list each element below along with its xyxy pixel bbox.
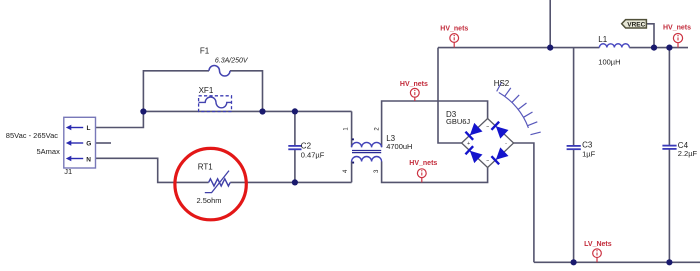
connector J1	[64, 117, 96, 168]
svg-text:LV_Nets: LV_Nets	[584, 241, 612, 248]
svg-text:HS2: HS2	[494, 79, 510, 88]
diode D3 top-left arm	[465, 123, 482, 140]
junction C3 bottom	[571, 259, 577, 265]
capacitor C3	[567, 146, 581, 149]
wire bridge plus output to top HV rail	[438, 48, 462, 143]
svg-text:85Vac - 265Vac: 85Vac - 265Vac	[6, 131, 59, 140]
bridge rectifier D3	[462, 119, 514, 168]
svg-text:1µF: 1µF	[582, 150, 595, 159]
svg-text:N: N	[86, 156, 91, 163]
wire J1 pin L to fuse-left junction	[96, 112, 144, 128]
capacitor C2	[288, 146, 301, 149]
svg-text:HV_nets: HV_nets	[440, 26, 468, 33]
wire L3 pin 3 to bridge AC bottom	[382, 162, 488, 183]
wire F1 top loop (left riser, top run, right riser)	[143, 71, 262, 112]
wire L3 pin 2 to bridge AC top	[382, 101, 488, 147]
wire top HV rail	[438, 47, 688, 49]
wire C3 branch	[573, 48, 575, 263]
svg-text:1: 1	[344, 127, 350, 131]
svg-text:~: ~	[486, 124, 489, 130]
svg-text:HV_nets: HV_nets	[663, 25, 691, 32]
svg-text:5Amax: 5Amax	[37, 147, 61, 156]
svg-text:2: 2	[375, 127, 381, 131]
svg-text:2.2µF: 2.2µF	[678, 149, 698, 158]
svg-text:~: ~	[486, 159, 489, 165]
svg-text:4: 4	[343, 169, 349, 173]
wire RT1 to L3 pin 4	[230, 162, 351, 183]
heatsink HS2	[497, 82, 541, 135]
wire riser to top edge	[549, 0, 551, 48]
svg-text:2.5ohm: 2.5ohm	[197, 196, 222, 205]
svg-text:C2: C2	[301, 142, 312, 151]
net HV_nets top-left	[440, 26, 468, 48]
svg-text:4700uH: 4700uH	[386, 142, 412, 151]
wire C2 bottom stub	[294, 150, 296, 183]
wire J1 pin G stub	[96, 142, 112, 144]
svg-text:VREC: VREC	[627, 21, 645, 28]
diode D3 top-right arm	[491, 121, 508, 138]
diode D3 bottom-left arm	[465, 146, 482, 163]
junction at fuse left	[140, 108, 146, 114]
junction top riser	[547, 45, 553, 51]
junction C2 bottom	[292, 179, 298, 185]
svg-text:G: G	[86, 141, 91, 148]
wire C4 branch	[668, 48, 670, 263]
junction C4 top	[666, 45, 672, 51]
wire J1 pin N to RT1	[96, 158, 209, 182]
svg-text:RT1: RT1	[198, 163, 214, 172]
net HV_nets mid (L3 pin2 rail)	[400, 81, 428, 101]
net flag VREC	[622, 20, 647, 29]
wire bridge minus output to bottom rail	[513, 143, 534, 262]
svg-text:C3: C3	[582, 141, 593, 150]
svg-text:-: -	[505, 141, 507, 147]
fuseholder XF1	[199, 96, 232, 112]
svg-text:GBU6J: GBU6J	[446, 117, 470, 126]
wire top AC rail to L3 pin 1	[143, 111, 351, 147]
svg-text:L1: L1	[598, 35, 607, 44]
junction VREC tap	[651, 45, 657, 51]
capacitor C4	[662, 146, 676, 149]
junction C4 bottom	[666, 259, 672, 265]
svg-text:3: 3	[374, 169, 380, 173]
common-mode choke L3	[352, 138, 382, 163]
thermistor RT1	[205, 171, 230, 193]
svg-text:L: L	[87, 125, 91, 132]
svg-text:HV_nets: HV_nets	[409, 160, 437, 167]
junction C2 top	[292, 108, 298, 114]
junction at fuse right	[259, 108, 265, 114]
svg-text:J1: J1	[64, 167, 72, 176]
wire VREC tap	[646, 24, 654, 48]
svg-text:XF1: XF1	[199, 86, 214, 95]
fuse F1	[209, 66, 230, 77]
net LV_Nets bottom	[584, 241, 612, 262]
wire C2 top stub	[294, 111, 296, 145]
svg-text:100µH: 100µH	[598, 57, 620, 66]
svg-text:0.47µF: 0.47µF	[301, 150, 325, 159]
svg-text:HV_nets: HV_nets	[400, 81, 428, 88]
inductor L1	[599, 44, 629, 48]
svg-text:+: +	[467, 141, 470, 147]
svg-text:F1: F1	[200, 47, 210, 56]
net HV_nets top-right	[663, 25, 691, 48]
diode D3 bottom-right arm	[491, 147, 508, 164]
wire bottom LV rail	[534, 261, 700, 263]
net HV_nets lower (L3 pin3 rail)	[409, 160, 437, 182]
RT1 highlight circle	[175, 148, 246, 219]
svg-text:6.3A/250V: 6.3A/250V	[215, 58, 249, 65]
